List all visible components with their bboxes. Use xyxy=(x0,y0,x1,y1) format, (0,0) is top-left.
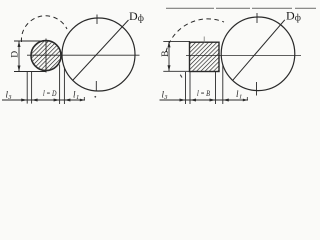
svg-text:l = D: l = D xyxy=(43,89,57,98)
svg-text:D: D xyxy=(10,51,20,58)
svg-text:ф: ф xyxy=(295,12,301,23)
svg-text:3: 3 xyxy=(163,94,168,101)
svg-text:D: D xyxy=(286,8,295,22)
svg-text:3: 3 xyxy=(7,94,12,101)
svg-text:B: B xyxy=(161,51,171,57)
svg-text:l = B: l = B xyxy=(197,89,210,98)
svg-text:1: 1 xyxy=(239,94,242,101)
svg-text:ф: ф xyxy=(138,13,144,24)
svg-text:D: D xyxy=(129,9,138,23)
svg-text:1: 1 xyxy=(76,94,79,101)
